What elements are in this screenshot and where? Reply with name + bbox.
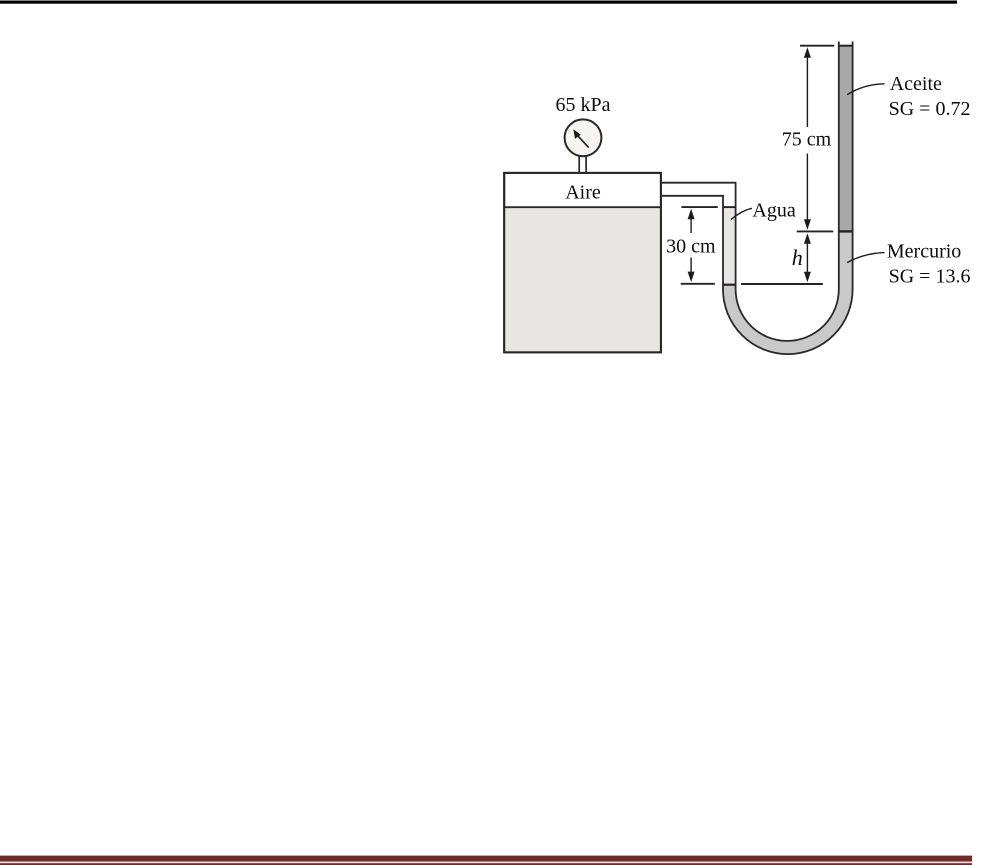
- dimension 75 cm: upper arrow: [804, 47, 811, 58]
- pressure gauge dial: [565, 119, 602, 156]
- svg-text:Aceite: Aceite: [890, 73, 942, 95]
- gauge needle: [577, 135, 588, 147]
- oil fill in right leg: [839, 46, 852, 232]
- dimension 75 cm: lower arrow: [806, 154, 808, 226]
- leader line for Aceite: [847, 84, 884, 95]
- svg-text:Mercurio: Mercurio: [887, 241, 961, 263]
- dimension 30 cm: upper arrow: [688, 209, 695, 220]
- gauge stem: [579, 156, 586, 172]
- gauge needle arrowhead: [573, 129, 581, 139]
- svg-text:SG = 0.72: SG = 0.72: [889, 98, 971, 120]
- bottom thick maroon rule: [0, 856, 972, 862]
- tank water fill: [505, 207, 660, 351]
- dimension shared tick at oil-mercury interface: [797, 230, 834, 232]
- tube inner wall: top of horizontal run, inner left leg, inner U arc, inner right leg: [661, 42, 839, 341]
- tube outer wall: bottom of horizontal run, outer left leg, outer U arc, outer right leg: [661, 42, 853, 355]
- leader line for Mercurio: [847, 253, 884, 263]
- tank body: [504, 173, 661, 352]
- dimension 75 cm: top tick at oil surface: [800, 45, 834, 47]
- svg-text:30 cm: 30 cm: [666, 235, 716, 257]
- svg-text:SG = 13.6: SG = 13.6: [889, 266, 971, 288]
- dimension h: lower arrow: [804, 272, 811, 283]
- oil top surface line in right leg: [839, 45, 853, 47]
- water fill in left tube leg: [724, 207, 736, 285]
- svg-text:Aire: Aire: [565, 181, 601, 203]
- bottom gap tint: [0, 862, 972, 864]
- svg-text:Agua: Agua: [752, 199, 795, 221]
- dimension 30 cm: top tick at water level: [681, 206, 717, 208]
- oil-mercury interface line in right leg: [839, 230, 853, 232]
- dimension h: line: [806, 241, 808, 274]
- leader line for Agua: [731, 208, 752, 219]
- dimension 30 cm: lower arrow: [688, 272, 695, 283]
- bottom thin maroon rule: [0, 863, 972, 865]
- svg-text:75 cm: 75 cm: [782, 129, 832, 151]
- mercury fill in U-bend and right leg: [723, 231, 852, 354]
- tank outline redraw: [504, 173, 661, 352]
- svg-text:65 kPa: 65 kPa: [556, 94, 611, 116]
- top rule: [0, 1, 957, 4]
- dimension 30 cm: bottom tick: [681, 283, 715, 285]
- dimension h: bottom tick at mercury level: [741, 283, 823, 285]
- water surface line in left leg: [723, 206, 737, 208]
- svg-text:h: h: [792, 245, 803, 270]
- dimension h: upper arrow: [804, 233, 811, 244]
- water-mercury interface line in left leg: [722, 284, 736, 286]
- tank water surface line: [504, 206, 660, 208]
